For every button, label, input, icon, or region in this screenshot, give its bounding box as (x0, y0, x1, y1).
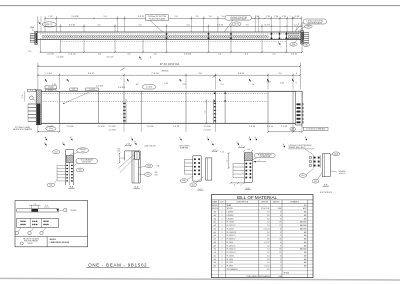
svg-text:10: 10 (279, 239, 281, 241)
svg-text:2: 2 (222, 239, 223, 241)
balloon note (slotted holes right) (224, 16, 252, 33)
svg-text:1'-3: 1'-3 (293, 24, 296, 26)
section A-A right note (74, 159, 98, 172)
svg-text:2'-0 5/16: 2'-0 5/16 (108, 126, 115, 128)
plan strip gauge line upper (dashed) (40, 33, 301, 35)
section B-B plate (135, 152, 140, 160)
svg-text:W16X26: W16X26 (71, 210, 77, 212)
svg-text:LENGTH: LENGTH (261, 201, 269, 203)
svg-text:5/16: 5/16 (157, 165, 160, 167)
svg-text:PL 1/2X5 1/2: PL 1/2X5 1/2 (227, 249, 236, 251)
section D-D label (245, 188, 251, 190)
section E-E label (323, 184, 329, 186)
BOM table title (211, 195, 313, 200)
svg-text:PL 1/2X3: PL 1/2X3 (227, 262, 233, 264)
section D-D plate (hatched) (244, 153, 252, 161)
svg-text:a63: a63 (214, 215, 217, 217)
svg-text:2 1/4: 2 1/4 (127, 144, 131, 146)
svg-text:1-15/16øx2 1/2 SLOTTED: 1-15/16øx2 1/2 SLOTTED (306, 20, 323, 22)
svg-text:3: 3 (241, 146, 242, 148)
svg-text:0'-5 1/2: 0'-5 1/2 (264, 266, 269, 268)
section D-D top flag (237, 142, 239, 146)
svg-text:1 1/2: 1 1/2 (220, 152, 224, 154)
svg-text:p67: p67 (214, 239, 217, 241)
svg-text:p64: p64 (214, 228, 217, 230)
svg-text:2'-0 5/16: 2'-0 5/16 (108, 129, 115, 131)
svg-text:10 1/4: 10 1/4 (264, 24, 269, 26)
elevation overall dimension line (37, 62, 301, 89)
svg-text:0'-8: 0'-8 (267, 235, 270, 237)
svg-text:W16X26: W16X26 (80, 149, 86, 151)
svg-text:(2C): (2C) (55, 151, 59, 153)
plan view dimension tier 2 (44, 24, 302, 27)
section B-B label (133, 187, 139, 189)
svg-text:PL 1/4X4: PL 1/4X4 (227, 242, 233, 244)
svg-text:2'-3: 2'-3 (182, 84, 185, 86)
svg-text:6'-8 1/4: 6'-8 1/4 (238, 73, 244, 75)
section C-C plate (193, 156, 201, 181)
svg-text:(2C): (2C) (192, 184, 196, 186)
section E-E top note (288, 145, 314, 155)
svg-text:1'-9 3/4: 1'-9 3/4 (45, 73, 51, 75)
svg-text:(a63): (a63) (147, 166, 151, 168)
section C-C dims right (212, 149, 230, 168)
section B-B left dim (118, 153, 134, 173)
elevation interior vertical dim (205, 100, 208, 125)
svg-text:9: 9 (296, 73, 297, 75)
section C-C label (197, 188, 203, 190)
elevation panel line P0 (97, 91, 99, 123)
svg-text:2-15/16øx1 1/2 SLOTTED HOLES: 2-15/16øx1 1/2 SLOTTED HOLES (289, 145, 312, 147)
svg-text:9: 9 (295, 82, 296, 84)
svg-text:1'-4: 1'-4 (208, 16, 211, 18)
svg-text:3'-4: 3'-4 (221, 16, 224, 18)
svg-text:a62: a62 (214, 212, 217, 214)
svg-text:PL 3/8X6 1/2: PL 3/8X6 1/2 (227, 239, 236, 241)
svg-text:PL 1/2X3: PL 1/2X3 (227, 259, 233, 261)
section A-A member (66, 150, 74, 186)
svg-text:2'-6: 2'-6 (245, 24, 248, 26)
svg-text:1 1/2: 1 1/2 (117, 148, 121, 150)
svg-text:2'-6: 2'-6 (127, 54, 130, 56)
svg-text:2'-0 5/16: 2'-0 5/16 (89, 89, 95, 91)
elevation bolted stiffener S3 (213, 91, 216, 123)
elevation right end plate with bolts (296, 91, 304, 125)
svg-text:2'-6: 2'-6 (195, 16, 198, 18)
svg-text:PL 5/16X3: PL 5/16X3 (227, 255, 234, 257)
svg-text:2'-0 5/16: 2'-0 5/16 (118, 87, 125, 89)
svg-text:(1B): (1B) (307, 26, 310, 28)
elevation below-beam extension lines (38, 123, 302, 132)
svg-text:w62: w62 (213, 255, 216, 257)
svg-text:x0'-8 LG: x0'-8 LG (339, 173, 345, 175)
svg-text:17: 17 (279, 225, 281, 227)
svg-text:4'-8 1/2: 4'-8 1/2 (138, 16, 144, 18)
svg-text:1'-2 1/8: 1'-2 1/8 (281, 126, 287, 128)
svg-text:25: 25 (279, 249, 281, 251)
svg-text:2: 2 (222, 218, 223, 220)
erection detail balloon right (63, 208, 76, 212)
elevation bottom section flags (45, 136, 307, 141)
svg-text:3'-8: 3'-8 (198, 73, 201, 75)
svg-text:1'-2: 1'-2 (267, 252, 270, 254)
svg-text:5 1/2: 5 1/2 (280, 82, 284, 84)
svg-text:0'-2: 0'-2 (267, 269, 270, 271)
plan right balloons (290, 23, 310, 47)
plan left end note (30, 21, 41, 31)
svg-text:W16X26: W16X26 (227, 208, 233, 210)
elevation left weld circle (30, 96, 37, 102)
svg-text:(2D): (2D) (301, 175, 305, 177)
svg-text:p68: p68 (214, 242, 217, 244)
svg-text:1'-4: 1'-4 (267, 225, 270, 227)
elevation below dim line segments (37, 131, 303, 133)
svg-text:2: 2 (222, 232, 223, 234)
elevation below-beam dimension texts (46, 126, 287, 131)
svg-text:1: 1 (222, 208, 223, 210)
plan strip bolt holes row (42, 36, 268, 38)
plan right end plate bolts (304, 33, 309, 43)
svg-text:COLUMN CONN: COLUMN CONN (259, 156, 270, 158)
svg-text:L4X4X3/8: L4X4X3/8 (339, 171, 346, 173)
svg-text:1'-2: 1'-2 (227, 160, 229, 163)
plan view dimension tier 1 (44, 16, 302, 19)
svg-text:0'-8: 0'-8 (267, 215, 270, 217)
plan view beam strip outline (37, 32, 304, 39)
svg-text:c63: c63 (214, 252, 217, 254)
svg-text:3'-2: 3'-2 (278, 73, 281, 75)
section E-E member (322, 154, 330, 177)
section C-C balloons (180, 177, 203, 187)
svg-text:2'-0 1/8: 2'-0 1/8 (47, 54, 53, 56)
plan right end plate (301, 31, 304, 45)
section C-C top note (179, 142, 214, 149)
svg-text:5'-0: 5'-0 (103, 16, 106, 18)
elevation left bolt leader lines (28, 104, 36, 121)
svg-text:PL 1/4X4 1/2: PL 1/4X4 1/2 (227, 245, 236, 247)
svg-text:5'-0: 5'-0 (138, 24, 141, 26)
svg-text:3/16: 3/16 (155, 175, 158, 177)
svg-text:1: 1 (38, 21, 39, 23)
elevation below-beam left note (13, 126, 56, 131)
svg-text:IF STRUT SUPPORT: IF STRUT SUPPORT (258, 154, 272, 156)
svg-text:2-9/16ø HOLES: 2-9/16ø HOLES (179, 146, 190, 148)
svg-text:PL 7/16X6: PL 7/16X6 (227, 222, 234, 224)
BOM table header row (211, 200, 313, 203)
svg-text:24 RO: 24 RO (234, 24, 239, 26)
svg-text:NORTH: NORTH (28, 243, 33, 245)
svg-text:0'-3: 0'-3 (267, 262, 270, 264)
svg-text:p62: p62 (214, 222, 217, 224)
svg-text:PL 1/2X5 1/2: PL 1/2X5 1/2 (227, 252, 236, 254)
svg-text:4: 4 (222, 255, 223, 257)
svg-text:2 1/4: 2 1/4 (274, 16, 278, 18)
svg-text:2-15/16øx2 1/2 SLOTTED: 2-15/16øx2 1/2 SLOTTED (230, 17, 248, 19)
svg-text:PL 5/16X4 1/2: PL 5/16X4 1/2 (227, 232, 237, 234)
svg-text:1 1/2: 1 1/2 (292, 18, 296, 20)
svg-text:1 1/2: 1 1/2 (247, 149, 251, 151)
svg-text:1006: 1006 (278, 208, 282, 210)
section D-D bolts (233, 163, 251, 179)
svg-text:s63: s63 (214, 262, 217, 264)
section A-A label (68, 186, 74, 189)
erection detail edge strip (17, 209, 63, 212)
svg-text:2: 2 (222, 262, 223, 264)
svg-text:2'-3: 2'-3 (220, 84, 223, 86)
sheet top border line (0, 5, 400, 7)
svg-text:3'-0: 3'-0 (245, 54, 248, 56)
svg-text:IN BM WEB: IN BM WEB (180, 148, 188, 150)
svg-text:5 1/2: 5 1/2 (72, 89, 75, 91)
elevation top left note box (28, 89, 36, 92)
section A-A top flags (44, 141, 64, 146)
svg-text:0'-11 1/4: 0'-11 1/4 (264, 228, 270, 230)
svg-text:2'-0 5/16: 2'-0 5/16 (96, 86, 103, 88)
svg-text:BOLT NOTE 5/16: BOLT NOTE 5/16 (320, 192, 332, 194)
svg-text:2'-0 5/16: 2'-0 5/16 (203, 129, 210, 131)
elevation bolted stiffener S2 (123, 91, 126, 123)
svg-text:1'-4: 1'-4 (267, 249, 270, 251)
svg-text:W16X26: W16X26 (212, 208, 218, 210)
erection detail edge strip dims (29, 204, 49, 209)
svg-text:BILL OF MATERIAL: BILL OF MATERIAL (237, 195, 278, 200)
svg-text:(13a): (13a) (49, 128, 53, 130)
svg-text:1'-4: 1'-4 (30, 90, 33, 92)
svg-text:a64: a64 (214, 218, 217, 220)
svg-text:2: 2 (222, 259, 223, 261)
svg-text:9B1502: 9B1502 (50, 239, 56, 241)
BOM table column lines (218, 200, 307, 278)
svg-text:2'-5: 2'-5 (272, 54, 275, 56)
elevation top left balloon (45, 86, 57, 92)
slotted hole note box (top) (146, 15, 169, 33)
plan lower right flag (278, 42, 281, 49)
svg-text:0'-3: 0'-3 (267, 259, 270, 261)
elevation left end plate with bolts (36, 90, 41, 125)
svg-text:8'-4 1/2: 8'-4 1/2 (88, 73, 94, 75)
plan view extension lines (38, 16, 302, 32)
section B-B top notes (117, 142, 156, 153)
section E-E top flag (283, 144, 285, 148)
svg-text:DESCRIPTION: DESCRIPTION (237, 201, 249, 203)
section A-A balloons (53, 148, 89, 155)
svg-text:p65: p65 (214, 232, 217, 234)
svg-text:2: 2 (222, 249, 223, 251)
svg-text:1 1/2: 1 1/2 (266, 16, 270, 18)
plan lower second row texts (57, 56, 152, 61)
svg-text:PL 1/2X7 1/2: PL 1/2X7 1/2 (227, 225, 236, 227)
svg-text:3'-0: 3'-0 (98, 54, 101, 56)
erection detail plan strip (17, 218, 59, 227)
svg-text:L4X4X3/8: L4X4X3/8 (227, 218, 234, 220)
svg-text:L4X4X3/8: L4X4X3/8 (227, 215, 234, 217)
balloon 24 RO (232, 22, 241, 26)
svg-text:5'-0: 5'-0 (174, 16, 177, 18)
svg-text:BOLTS (TYP): BOLTS (TYP) (82, 162, 91, 164)
svg-text:37'-10 13/16 O/A: 37'-10 13/16 O/A (160, 62, 180, 66)
svg-text:(a62): (a62) (182, 180, 186, 182)
svg-text:1'-2: 1'-2 (267, 245, 270, 247)
svg-text:(a64): (a64) (334, 153, 338, 155)
plan strip gauge line lower (dashed) (40, 37, 301, 39)
svg-text:PL 3/8X4: PL 3/8X4 (227, 266, 233, 268)
svg-text:2'-6: 2'-6 (153, 54, 156, 56)
svg-text:2'-6: 2'-6 (218, 54, 221, 56)
erection detail cluster balloons (15, 228, 46, 235)
svg-text:(12): (12) (49, 185, 52, 187)
elevation panel line P1 (140, 91, 142, 123)
svg-text:5'-0: 5'-0 (97, 24, 100, 26)
svg-text:L4X4X3/8: L4X4X3/8 (227, 212, 234, 214)
svg-text:1/2: 1/2 (136, 84, 139, 86)
stray note below E-E (320, 192, 332, 194)
svg-text:p66: p66 (214, 235, 217, 237)
sheet bottom border line (0, 278, 400, 280)
svg-text:2'-0 5/16: 2'-0 5/16 (66, 126, 73, 128)
plan left end plate (35, 31, 38, 44)
section C-C bolts (184, 158, 200, 175)
svg-text:1 1/2: 1 1/2 (48, 16, 52, 18)
elevation left vertical dim (22, 91, 25, 101)
plan strip bolt holes row (right group) (289, 36, 300, 38)
svg-text:(1B): (1B) (292, 44, 295, 46)
elevation dimension tier 2 (37, 73, 301, 89)
svg-text:2: 2 (222, 222, 223, 224)
svg-text:WEIGHT: WEIGHT (273, 201, 280, 203)
svg-text:(1F): (1F) (147, 174, 150, 176)
svg-text:0'-9: 0'-9 (267, 255, 270, 257)
section C-C right member (205, 158, 211, 180)
svg-text:9B1502: 9B1502 (212, 205, 217, 207)
BOM table outer frame (211, 195, 313, 278)
svg-text:PL 5/16X4: PL 5/16X4 (227, 228, 234, 230)
svg-text:1'-4: 1'-4 (267, 222, 270, 224)
section D-D right leader (253, 160, 266, 163)
svg-text:REMARKS: REMARKS (291, 200, 300, 203)
section D-D bottom dims (230, 182, 245, 186)
elevation shim note box (290, 126, 328, 131)
svg-text:5'-0: 5'-0 (186, 24, 189, 26)
svg-text:0'-7 1/2: 0'-7 1/2 (264, 242, 269, 244)
svg-text:2'-6 7/8: 2'-6 7/8 (173, 126, 179, 128)
balloon label 2B (top left) (42, 22, 56, 27)
erection detail box frame (15, 201, 88, 247)
svg-text:2: 2 (289, 16, 290, 18)
svg-text:1: 1 (222, 225, 223, 227)
note balloon (plan right end) (292, 18, 327, 32)
elevation near-top dimension texts (52, 82, 297, 89)
svg-text:1'-6: 1'-6 (251, 84, 254, 86)
svg-text:A-A: A-A (70, 186, 74, 189)
plan left end plate bolts (30, 34, 34, 43)
svg-text:0'-8: 0'-8 (267, 239, 270, 241)
elevation panel line P2 (185, 91, 187, 123)
plan lower band dashed line (61, 40, 287, 42)
svg-text:1'-6 1/4: 1'-6 1/4 (249, 126, 255, 128)
svg-text:(2C): (2C) (78, 170, 82, 172)
svg-text:2: 2 (222, 245, 223, 247)
elevation hole gauge dashed line 1 (37, 92, 268, 94)
elevation stiffener S1 (58, 91, 60, 123)
BOM table total row (246, 275, 282, 278)
svg-text:2: 2 (222, 212, 223, 214)
svg-text:2: 2 (281, 47, 282, 49)
svg-text:p69: p69 (214, 245, 217, 247)
section B-B member (125, 151, 141, 183)
section A-A bolt rows (57, 165, 73, 182)
elevation panel line P3 (224, 91, 225, 123)
svg-text:1: 1 (222, 215, 223, 217)
svg-text:2'-0 5/16: 2'-0 5/16 (203, 126, 210, 128)
svg-text:22: 22 (279, 252, 281, 254)
svg-text:7'-11 1/4: 7'-11 1/4 (151, 73, 158, 75)
svg-text:5'-0 5/16: 5'-0 5/16 (184, 54, 191, 56)
svg-text:(2C): (2C) (314, 181, 318, 183)
svg-text:1246: 1246 (279, 276, 283, 278)
svg-text:ONE - BEAM - 9B1502: ONE - BEAM - 9B1502 (88, 263, 147, 268)
elevation panel line P5 (292, 91, 294, 123)
svg-text:3'-0 1/4: 3'-0 1/4 (69, 24, 75, 26)
section E-E balloons (299, 152, 345, 183)
svg-text:2'-6: 2'-6 (34, 204, 37, 206)
section A-A bottom balloon (47, 181, 57, 187)
svg-text:(2B) TYP: (2B) TYP (46, 24, 53, 26)
svg-text:5 1/2: 5 1/2 (164, 83, 168, 85)
svg-text:N/S: N/S (304, 205, 307, 207)
svg-text:1: 1 (222, 235, 223, 237)
svg-text:2: 2 (222, 252, 223, 254)
elevation panel line P4 (267, 91, 269, 123)
svg-text:p63: p63 (214, 225, 217, 227)
svg-text:2'-0 5/16: 2'-0 5/16 (146, 87, 152, 89)
svg-text:5'-0 5/16: 5'-0 5/16 (71, 16, 78, 18)
plan strip junction points (166, 32, 288, 39)
elevation hole gauge dashed line 2 (37, 101, 268, 103)
svg-text:19: 19 (279, 222, 281, 224)
section D-D member lines (244, 153, 252, 183)
svg-text:6: 6 (222, 266, 223, 268)
svg-text:s62: s62 (214, 259, 217, 261)
svg-text:2-15/16øx2 1/2 SLOTTED: 2-15/16øx2 1/2 SLOTTED (148, 16, 167, 18)
svg-text:2 1/4: 2 1/4 (295, 16, 299, 18)
section D-D top dims (238, 146, 253, 152)
plan lower dimension line (40, 51, 303, 55)
svg-text:1 1/2: 1 1/2 (213, 149, 217, 151)
svg-text:b62: b62 (214, 266, 217, 268)
section E-E bolts (309, 155, 320, 168)
svg-text:5'-0 5/16: 5'-0 5/16 (146, 126, 153, 128)
svg-text:1'-2: 1'-2 (205, 111, 207, 114)
svg-text:W16X26: W16X26 (162, 70, 169, 72)
svg-text:c62: c62 (214, 249, 217, 251)
svg-text:PL 3/8X6 1/2: PL 3/8X6 1/2 (227, 235, 236, 237)
erection box right cell text (50, 239, 70, 244)
svg-text:x0'-8: x0'-8 (81, 151, 84, 153)
svg-text:1'-4: 1'-4 (22, 95, 24, 98)
svg-text:2: 2 (222, 228, 223, 230)
svg-text:1 1/2: 1 1/2 (52, 84, 56, 86)
erection box left cell text (20, 237, 39, 245)
erection detail bolt clusters (20, 221, 48, 226)
svg-text:14'-5 1/2: 14'-5 1/2 (107, 57, 114, 59)
svg-text:1'-6 1/2: 1'-6 1/2 (291, 54, 297, 56)
drawing title ONE - BEAM - 9B1502 (86, 263, 149, 268)
svg-text:2'-11 1/4: 2'-11 1/4 (68, 54, 75, 56)
plan right bolted zone (286, 32, 301, 39)
plan lower band extension lines (41, 40, 303, 52)
erection box title divider (15, 237, 88, 247)
svg-text:2 1/2: 2 1/2 (28, 51, 32, 53)
